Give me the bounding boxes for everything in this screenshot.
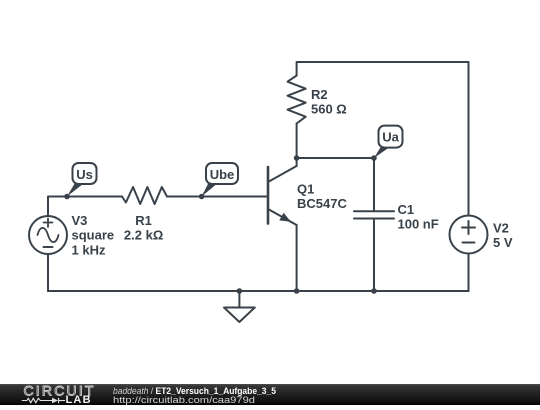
svg-text:V2: V2 <box>493 221 509 236</box>
svg-text:Ua: Ua <box>382 130 399 145</box>
resistor R1 <box>122 187 167 204</box>
node junction Ua <box>371 155 377 161</box>
footer bar <box>0 384 540 405</box>
wire collector node to Ua node <box>297 157 374 159</box>
wire Ua node to C1 top <box>373 158 375 211</box>
svg-text:5 V: 5 V <box>493 235 513 250</box>
node junction emitter <box>294 288 300 294</box>
svg-text:Us: Us <box>76 167 93 182</box>
node junction Ube <box>199 194 205 200</box>
node flag Ube <box>202 163 238 197</box>
wire V3 bottom <box>47 254 49 291</box>
wire R1 to base <box>167 196 267 198</box>
svg-text:R2: R2 <box>311 87 328 102</box>
node junction collector <box>294 155 300 161</box>
svg-text:BC547C: BC547C <box>297 196 347 211</box>
svg-text:V3: V3 <box>72 213 88 228</box>
node junction C1 bottom <box>371 288 377 294</box>
svg-text:560 Ω: 560 Ω <box>311 102 347 117</box>
wire right rail bottom <box>468 254 470 292</box>
footer text <box>113 386 276 405</box>
resistor R2 <box>288 76 306 124</box>
wire V3 top to input <box>48 197 122 217</box>
voltage source V2 <box>450 216 488 254</box>
transistor Q1 <box>268 166 297 225</box>
CircuitLab logo <box>22 383 96 407</box>
svg-text:square: square <box>72 228 115 243</box>
wire emitter to rail <box>296 225 298 291</box>
svg-text:http://circuitlab.com/caa979d: http://circuitlab.com/caa979d <box>113 395 255 405</box>
node junction Us <box>64 194 70 200</box>
svg-text:LAB: LAB <box>66 394 92 405</box>
svg-text:2.2 kΩ: 2.2 kΩ <box>124 228 163 243</box>
wire top rail <box>297 62 469 216</box>
voltage source V3 <box>29 216 67 254</box>
svg-text:Q1: Q1 <box>297 182 314 197</box>
ground <box>224 291 255 322</box>
wire C1 bottom to rail <box>373 219 375 292</box>
wire bottom rail <box>48 290 469 292</box>
svg-text:1 kHz: 1 kHz <box>72 242 106 257</box>
svg-text:100 nF: 100 nF <box>398 217 439 232</box>
svg-text:C1: C1 <box>398 202 415 217</box>
node flag Ua <box>374 126 403 158</box>
node flag Us <box>67 163 97 197</box>
svg-text:Ube: Ube <box>210 167 235 182</box>
svg-text:R1: R1 <box>135 213 152 228</box>
capacitor C1 <box>354 211 394 218</box>
node junction ground <box>237 288 243 294</box>
wire R2 bottom to collector node <box>296 124 298 167</box>
